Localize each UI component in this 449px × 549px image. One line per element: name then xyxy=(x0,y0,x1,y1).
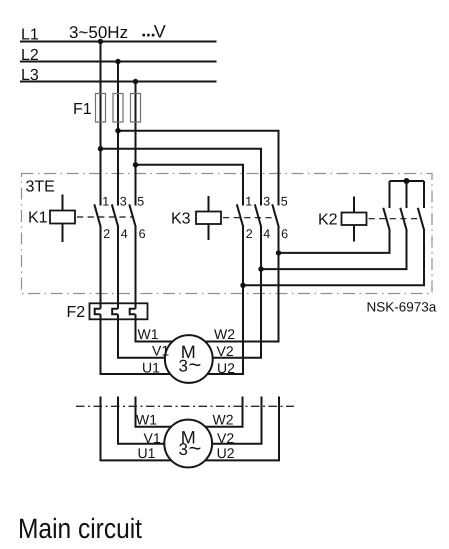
wire L3 bus xyxy=(20,81,217,83)
node K2 bridge xyxy=(404,178,410,184)
wire K2 contact 1 stub xyxy=(389,181,391,208)
svg-text:NSK-6973a: NSK-6973a xyxy=(367,300,437,315)
svg-text:3~50Hz: 3~50Hz xyxy=(69,23,128,42)
svg-text:6: 6 xyxy=(139,227,146,241)
svg-text:4: 4 xyxy=(121,227,128,241)
wire K2 contact 2 to K3 column xyxy=(279,231,390,253)
wire motor2 U2 return xyxy=(205,397,279,461)
svg-text:K3: K3 xyxy=(171,211,191,228)
svg-text:2: 2 xyxy=(103,227,110,241)
overload F2 element b xyxy=(112,309,118,315)
labels motor1 right terminals xyxy=(214,326,235,376)
wire motor2 V2 return xyxy=(212,397,261,444)
node K3-K2 link 1 xyxy=(276,250,281,255)
svg-text:L3: L3 xyxy=(21,67,39,84)
svg-text:Main circuit: Main circuit xyxy=(18,513,142,544)
fuse F1 element c xyxy=(131,94,141,123)
contactor K2 contact 1-2 xyxy=(383,208,390,231)
svg-text:K1: K1 xyxy=(28,209,48,226)
svg-text:4: 4 xyxy=(263,227,270,241)
motor M1 circle xyxy=(165,335,213,383)
pin numbers K3 top 1 3 5 xyxy=(245,194,288,208)
contactor K1 contact 5-6 xyxy=(129,204,136,227)
wire K2 star bridge bar xyxy=(390,180,425,182)
svg-text:~: ~ xyxy=(189,435,202,460)
svg-text:W2: W2 xyxy=(213,411,234,427)
svg-text:K2: K2 xyxy=(318,212,338,229)
wire overload to motor W1 xyxy=(136,314,173,341)
wire motor2 W1 feed xyxy=(136,397,172,427)
svg-text:1: 1 xyxy=(102,194,109,208)
wire K1 contact 4 to overload xyxy=(117,227,119,309)
labels motor2 left terminals xyxy=(136,411,161,460)
node branch C xyxy=(133,162,138,167)
node branch A xyxy=(98,146,103,151)
label voltage dots xyxy=(142,34,154,37)
svg-text:5: 5 xyxy=(137,194,144,208)
svg-text:V2: V2 xyxy=(217,343,234,359)
svg-text:V1: V1 xyxy=(152,343,169,359)
motor boundary dash-dot line xyxy=(76,405,294,407)
contactor K2 contact 5-6 xyxy=(418,208,425,231)
svg-text:W2: W2 xyxy=(214,326,235,342)
wire phase B drop (L2 to K1 contact 3) xyxy=(117,62,119,206)
wire K3 contact 6 to motor W2 xyxy=(205,227,278,342)
fuse F1 element a xyxy=(96,94,106,123)
svg-text:5: 5 xyxy=(281,194,288,208)
svg-text:3: 3 xyxy=(179,440,188,459)
node L1 tap xyxy=(98,39,103,44)
wire branch A to K3 contact 3 xyxy=(101,149,262,206)
wire branch B to K3 contact 5 xyxy=(118,131,279,206)
contactor K2 coil xyxy=(342,197,421,242)
svg-text:U2: U2 xyxy=(217,445,235,461)
wire phase C drop (L3 to K1 contact 5) xyxy=(135,82,137,206)
enclosure box 3TE (dash-dot) xyxy=(22,174,433,294)
wire K1 contact 2 to overload xyxy=(100,227,102,309)
wire K3 contact 4 to motor V2 xyxy=(213,227,261,358)
svg-text:2: 2 xyxy=(246,227,253,241)
node L3 tap xyxy=(133,79,138,84)
fuse F1 element b xyxy=(113,94,123,123)
node K3-K2 link 2 xyxy=(258,266,263,271)
contactor K2 contact 3-4 xyxy=(400,208,407,231)
svg-text:U1: U1 xyxy=(138,445,156,461)
node L2 tap xyxy=(115,59,120,64)
svg-text:F2: F2 xyxy=(67,304,86,321)
svg-text:6: 6 xyxy=(281,227,288,241)
wire overload to motor U1 xyxy=(101,314,171,374)
motor M2 circle xyxy=(164,420,212,468)
svg-text:V2: V2 xyxy=(217,430,234,446)
svg-text:L1: L1 xyxy=(21,27,39,44)
svg-text:L2: L2 xyxy=(21,47,39,64)
pin numbers K1 bottom 2 4 6 xyxy=(103,227,145,241)
wire K3 contact 2 to motor U2 xyxy=(208,227,244,375)
svg-text:F1: F1 xyxy=(73,101,92,118)
svg-text:W1: W1 xyxy=(136,411,157,427)
svg-text:V1: V1 xyxy=(144,430,161,446)
wire motor2 W2 return xyxy=(205,397,242,427)
svg-text:U1: U1 xyxy=(142,360,160,376)
svg-text:1: 1 xyxy=(245,194,252,208)
node K3-K2 link 3 xyxy=(240,283,245,288)
overload F2 element a xyxy=(95,309,101,315)
wire K2 contact 5 stub xyxy=(423,181,425,208)
svg-text:V: V xyxy=(154,22,166,42)
wire branch C to K3 contact 1 xyxy=(136,165,244,206)
wire K2 contact 6 to K3 column xyxy=(243,231,424,286)
contactor K1 contact 1-2 xyxy=(94,204,101,227)
svg-text:3TE: 3TE xyxy=(26,179,55,196)
node branch B xyxy=(115,128,120,133)
contactor K1 contact 3-4 xyxy=(112,204,119,227)
svg-text:~: ~ xyxy=(189,352,202,377)
wire L2 bus xyxy=(20,61,217,63)
wire K1 contact 6 to overload xyxy=(135,227,137,309)
overload F2 element c xyxy=(130,309,136,315)
contactor K3 contact 5-6 xyxy=(272,204,279,227)
contactor K3 contact 1-2 xyxy=(237,204,244,227)
svg-text:W1: W1 xyxy=(138,326,159,342)
svg-text:3: 3 xyxy=(120,194,127,208)
contactor K3 coil xyxy=(196,196,277,240)
svg-text:3: 3 xyxy=(263,194,270,208)
pin numbers K1 top 1 3 5 xyxy=(102,194,144,208)
contactor K3 contact 3-4 xyxy=(255,204,261,227)
wire overload to motor V1 xyxy=(118,314,165,357)
svg-text:3: 3 xyxy=(179,357,188,376)
contactor K1 coil xyxy=(50,195,134,243)
overload relay F2 body xyxy=(90,303,148,319)
labels motor2 right terminals xyxy=(213,411,235,460)
pin numbers K3 bottom 2 4 6 xyxy=(246,227,288,241)
wire motor2 U1 feed xyxy=(101,397,172,461)
svg-text:U2: U2 xyxy=(217,360,235,376)
wire motor2 V1 feed xyxy=(118,397,164,444)
wire phase A drop (L1 to K1 contact 1) xyxy=(100,42,102,206)
wire K2 contact 4 to K3 column xyxy=(261,231,407,270)
labels motor1 left terminals xyxy=(138,326,170,376)
wire L1 bus xyxy=(20,41,217,43)
wire K2 contact 3 stub xyxy=(406,181,408,208)
